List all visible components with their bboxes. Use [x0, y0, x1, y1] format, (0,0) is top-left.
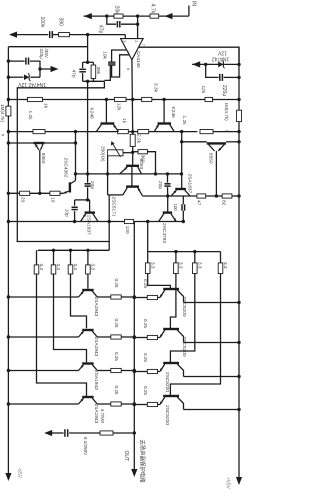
node rail row 2: [133, 335, 136, 338]
junction 47p right: [136, 23, 139, 26]
wire vas vertical x75: [75, 132, 77, 181]
resistor 1.2k: [33, 130, 45, 134]
wire trimmer wiper to fb loop: [104, 66, 110, 81]
svg-text:0.25: 0.25: [114, 386, 119, 395]
svg-text:8050: 8050: [40, 153, 46, 164]
resistor 1k vas: [118, 130, 129, 134]
arrow signal direction into 4.7k: [165, 13, 173, 19]
node 220u left: [7, 59, 10, 62]
capacitor 20p left branch: [87, 174, 89, 183]
node rf1: [174, 250, 177, 253]
resistor 1.2k right: [200, 130, 213, 134]
resistor 10: [50, 191, 60, 195]
wire q10 base vertical: [89, 200, 91, 213]
svg-text:3.3: 3.3: [197, 262, 202, 269]
wire op-amp pin7 supply to right: [139, 47, 239, 64]
svg-text:0.25: 0.25: [114, 279, 119, 288]
node rail y221 left: [7, 220, 10, 223]
resistor 3.3 right 1: [147, 252, 149, 263]
resistor 0.25 left 3: [111, 368, 121, 372]
svg-text:2SA1837: 2SA1837: [85, 215, 91, 235]
svg-text:20p: 20p: [157, 181, 163, 189]
capacitor 47p plates: [116, 21, 118, 28]
node junction pin2 top: [136, 14, 139, 17]
wire QR2 emitter to 0.25: [158, 337, 160, 339]
op-amp U1 CA3140 triangle: [121, 39, 144, 60]
wire q1 base left: [8, 142, 33, 144]
svg-text:0.25: 0.25: [143, 319, 148, 328]
transistor QL4 2SA1943: [82, 396, 93, 398]
wire fb return loop to x16 rail: [17, 81, 104, 241]
svg-text:3.3: 3.3: [91, 264, 96, 271]
IN stub wire: [188, 6, 190, 17]
node left rail y131: [7, 130, 10, 133]
wire 0.25R to rail 3: [134, 371, 147, 373]
transistor Q6 8550: [207, 142, 226, 144]
node 8550 lead join: [215, 194, 218, 197]
resistor 3.3k: [142, 97, 152, 101]
svg-text:0.25: 0.25: [143, 353, 148, 362]
wire 390 to pin3 corner: [69, 34, 125, 36]
wire q1 down lead: [39, 150, 41, 194]
svg-text:4.7/5W: 4.7/5W: [100, 409, 105, 424]
node q1 left rail: [7, 141, 10, 144]
node cap20p right join: [166, 172, 169, 175]
svg-text:K246: K246: [170, 107, 176, 119]
wire pin3 vertical: [124, 35, 126, 39]
svg-text:3.3: 3.3: [73, 264, 78, 271]
wire top frame horizontal: [8, 46, 87, 48]
wire zener D1 branch: [8, 76, 23, 78]
node 10p bottom: [73, 220, 76, 223]
svg-text:0.1/250V: 0.1/250V: [83, 437, 88, 456]
wire 4.7 to rail: [113, 432, 134, 434]
svg-text:47p: 47p: [98, 25, 104, 34]
resistor 0.25 left 2: [111, 335, 121, 339]
wire 82 to bus: [232, 195, 239, 197]
node bus row 1: [237, 301, 240, 304]
wire 0.25 to rail 3: [121, 370, 134, 372]
wire 47 to 82: [206, 195, 223, 197]
svg-text:CA3140: CA3140: [136, 51, 141, 68]
resistor 3.3 left 1: [36, 250, 38, 265]
svg-text:2SC4382: 2SC4382: [62, 158, 68, 178]
wire offset pin1 stub and U loop: [112, 50, 130, 77]
node q1 right: [74, 141, 77, 144]
wire left rail -65V vertical: [7, 47, 9, 474]
wire left bank feed loop: [17, 241, 110, 243]
wire fb bottom rail: [83, 80, 105, 82]
wire feedback node vertical long: [87, 81, 89, 174]
svg-text:+65V: +65V: [225, 477, 231, 489]
wire 20k to 4.7k node: [123, 15, 150, 17]
arrow -65V: [5, 473, 11, 481]
node q1 lead join: [38, 192, 41, 195]
resistor 3.3 left 2: [53, 250, 55, 265]
svg-text:2SA1943: 2SA1943: [93, 297, 99, 317]
capacitor 220u/35V plates left: [25, 58, 27, 65]
node output cross: [131, 98, 134, 101]
q1 slants: [35, 144, 39, 150]
wire OUT: [133, 433, 135, 470]
node bias top: [131, 151, 134, 154]
transistor Q4 8050 bias: [126, 165, 139, 167]
wire left feed drop: [108, 222, 110, 251]
svg-text:4.7k: 4.7k: [150, 4, 156, 14]
wire base line L2 with jog: [54, 274, 87, 362]
wire driver base left y200: [75, 199, 90, 201]
wire limiter base vertical: [181, 142, 183, 188]
wire output emitter rail y221: [8, 221, 183, 223]
wire 0.25R to rail 1: [134, 297, 147, 299]
svg-text:3.3: 3.3: [223, 262, 228, 269]
wire K246R drain down to base line: [181, 132, 183, 142]
potentiometer 250(1k): [108, 150, 123, 156]
resistor 3.3 right 3: [194, 252, 196, 263]
svg-text:-65V: -65V: [16, 468, 22, 479]
node rail y193: [7, 192, 10, 195]
wire rail line y131: [8, 131, 33, 133]
transistor Q5 2SC5171: [126, 185, 139, 187]
wire noninverting input line y=34.6: [14, 34, 48, 36]
wire QL3 collector to left rail: [8, 370, 78, 372]
node feedback tap on pin3 wire: [86, 33, 89, 36]
wire right rail +65V vertical: [238, 47, 240, 478]
capacitor 20p right branch: [167, 174, 169, 183]
wire QL4 collector to left rail: [8, 403, 78, 405]
svg-text:47p: 47p: [71, 70, 77, 78]
wire 360 branch: [133, 151, 138, 153]
wire 0.25 to rail 1: [121, 296, 134, 298]
wire fb top rail: [83, 61, 94, 63]
transistor Q8 2SC4793 driver: [163, 211, 172, 213]
node left rail row 1: [7, 295, 10, 298]
svg-text:12V: 12V: [217, 50, 227, 56]
node rail row R 2: [133, 336, 136, 339]
svg-text:82: 82: [220, 200, 226, 206]
svg-text:/35V: /35V: [44, 49, 49, 59]
capacitor 10p branch: [74, 200, 76, 206]
wire output rail vertical: [133, 222, 135, 434]
svg-text:2SA1943: 2SA1943: [93, 404, 99, 424]
wire to right resistor: [149, 131, 198, 133]
wire q5 left stub down: [108, 195, 110, 222]
svg-text:IN: IN: [191, 1, 197, 6]
svg-text:100: 100: [173, 204, 178, 212]
node bus row 2: [237, 341, 240, 344]
svg-text:3.3k: 3.3k: [152, 83, 158, 93]
wire base line R2 with jog: [170, 274, 176, 329]
svg-text:220μ: 220μ: [39, 49, 44, 60]
wire zobel: [50, 432, 64, 434]
arrow +12V off-page right: [51, 66, 59, 72]
capacitor 220u branch right: [206, 64, 219, 77]
svg-text:0.25: 0.25: [114, 352, 119, 361]
capacitor 0.1/250V plates: [64, 429, 66, 437]
node K246R drain join: [180, 130, 183, 133]
node left rail row 3: [7, 369, 10, 372]
node y131 bus: [237, 130, 240, 133]
svg-text:8050: 8050: [138, 159, 144, 170]
wire base line R1 with jog: [148, 274, 171, 289]
capacitor 100p right: [182, 196, 184, 204]
node rail row 4: [133, 402, 136, 405]
node q5 stub join: [108, 220, 111, 223]
arrow +12V off-page left: [192, 61, 200, 67]
svg-text:100k: 100k: [39, 17, 45, 28]
wire base line L1: [87, 274, 89, 289]
svg-text:2SC5200: 2SC5200: [164, 405, 170, 425]
resistor 82: [222, 194, 232, 198]
node vas feed: [74, 130, 77, 133]
node lf2: [69, 249, 72, 252]
wire QR4 collector to bus: [184, 409, 240, 411]
resistor 0.25 right 3: [147, 369, 157, 373]
wire QR1 collector to bus: [184, 302, 240, 304]
node vas mid: [74, 172, 77, 175]
node arrow branch: [38, 67, 41, 70]
arrow off-page left main: [9, 32, 17, 38]
svg-text:2SA1943: 2SA1943: [93, 370, 99, 390]
node bus row 3: [237, 375, 240, 378]
wire QL1 collector to left rail: [8, 296, 78, 298]
wire QR1 emitter to 0.25: [158, 297, 160, 299]
node rail row R 4: [133, 403, 136, 406]
svg-text:OUT: OUT: [123, 451, 129, 462]
svg-text:×: ×: [0, 134, 5, 137]
node lf3: [86, 249, 89, 252]
svg-text:去扬声器保护电路: 去扬声器保护电路: [139, 440, 147, 484]
node limiter top: [180, 140, 183, 143]
wire QR2 collector to bus: [184, 342, 240, 344]
svg-text:2SC5200: 2SC5200: [164, 372, 170, 392]
node right bank feed: [146, 220, 149, 223]
svg-text:1N4742: 1N4742: [212, 55, 230, 61]
resistor 3.3 left 4: [87, 250, 89, 265]
svg-text:390: 390: [57, 18, 63, 27]
resistor 0.25 left 4: [111, 402, 121, 406]
node fb top: [86, 61, 89, 64]
node rail row R 3: [133, 370, 136, 373]
wire 1k to K246 gate node: [43, 99, 115, 101]
node left rail row 2: [7, 335, 10, 338]
resistor 1k feed: [28, 97, 43, 101]
resistor 20: [20, 191, 30, 195]
node op-amp output join: [131, 130, 134, 133]
svg-text:20k: 20k: [114, 6, 120, 15]
svg-text:2SA1837: 2SA1837: [187, 174, 193, 194]
wire right bank feed drop: [147, 222, 149, 252]
svg-text:2SC5171: 2SC5171: [110, 197, 116, 217]
resistor 47: [197, 194, 206, 198]
node 20k left: [105, 14, 108, 17]
wire q5 left foot stub: [108, 194, 123, 196]
wire QL4 emitter: [97, 403, 111, 405]
svg-text:20: 20: [20, 197, 26, 203]
node cap 20p r bottom: [166, 194, 169, 197]
resistor 2.2k h: [138, 130, 149, 134]
resistor 0.25 right 1: [147, 295, 157, 299]
wire 220u left branch: [8, 60, 24, 62]
wire pin2 vertical: [137, 16, 139, 38]
node 8550 bus: [237, 140, 240, 143]
svg-text:1M(4.7k): 1M(4.7k): [224, 103, 229, 122]
transistor Q9 2SC4382 vas: [69, 182, 71, 192]
wire base line L3 with jog: [71, 274, 87, 328]
wire mid bias rail y174: [76, 173, 182, 175]
node 220u bus: [237, 76, 240, 79]
zener D2 1N4742: [218, 62, 223, 68]
wire QL1 emitter: [97, 296, 111, 298]
svg-text:1.2k: 1.2k: [27, 111, 33, 121]
svg-text:1N4742 12V: 1N4742 12V: [17, 81, 45, 87]
wire 12V feed line: [8, 99, 27, 101]
wire 0.25R to rail 4: [134, 404, 147, 406]
node lf1: [52, 249, 55, 252]
wire 1.2k to K246: [45, 131, 118, 133]
arrow off-page left on upper line: [84, 13, 92, 19]
wire 220u left to corner: [30, 61, 40, 77]
svg-text:2SC4793: 2SC4793: [161, 223, 167, 243]
capacitor 47p branch wire: [107, 16, 116, 24]
arrow OUT: [131, 469, 137, 477]
transistor QR1 2SC5200: [163, 288, 179, 290]
svg-text:2SC5200: 2SC5200: [181, 337, 187, 357]
wire base line R3 with jog: [170, 274, 194, 363]
wire pot left lead down: [107, 156, 109, 195]
svg-text:250(1k): 250(1k): [101, 146, 106, 162]
wire 8550 base line: [182, 141, 207, 143]
zener D1 1N4742 12V: [24, 74, 29, 80]
node 100p bottom: [182, 220, 185, 223]
svg-text:3.3: 3.3: [56, 264, 61, 271]
resistor 4.7/5W: [100, 431, 113, 435]
svg-text:K246: K246: [89, 108, 95, 120]
node 360 join: [154, 172, 157, 175]
resistor 0.25 right 2: [147, 335, 157, 339]
transistor Q3 K246 jfet: [101, 122, 115, 124]
svg-text:10k: 10k: [101, 51, 107, 59]
node pot left on mid wire: [106, 172, 109, 175]
svg-text:2SA1943: 2SA1943: [93, 337, 99, 357]
resistor 1M(4.7k) on left rail: [6, 106, 11, 116]
wire arrow +12V stub: [40, 68, 53, 70]
svg-text:220μ: 220μ: [221, 85, 227, 96]
capacitor 220u plates: [219, 74, 221, 81]
resistor 0.25 right 4: [147, 402, 157, 406]
node fb drop join: [86, 172, 89, 175]
svg-text:10p: 10p: [63, 209, 69, 217]
transistor QL2 2SA1943: [82, 329, 93, 331]
svg-text:1.2k: 1.2k: [181, 116, 187, 126]
svg-text:3.3: 3.3: [39, 264, 44, 271]
node rail row 1: [133, 295, 136, 298]
wire mid: [126, 99, 142, 101]
svg-text:1M(4.7k): 1M(4.7k): [0, 104, 5, 123]
node zener cathode bus: [237, 63, 240, 66]
node y196 bus: [237, 194, 240, 197]
resistor 12k: [205, 97, 213, 101]
wire 220u to bus: [224, 76, 239, 78]
node K246R gate tap: [162, 98, 165, 101]
resistor 3.3 right 4: [220, 252, 222, 263]
resistor 2.2k vertical: [130, 134, 135, 146]
resistor 39k: [91, 65, 96, 79]
wire q8 base vertical: [167, 196, 169, 213]
transistor K246 right (mirror): [158, 122, 172, 124]
svg-text:2SC5200: 2SC5200: [181, 297, 187, 317]
resistor 4.7k: [150, 14, 159, 18]
svg-text:12k: 12k: [200, 86, 206, 94]
resistor 10k mid: [115, 97, 127, 101]
node bus row 4: [237, 408, 240, 411]
wire input upper line (feedback tap) with off-page arrow: [84, 15, 115, 17]
svg-text:100: 100: [124, 226, 130, 234]
wire q1 bar right extension: [44, 142, 75, 144]
8550 slants: [209, 144, 215, 151]
svg-text:10: 10: [50, 197, 56, 203]
node fb bottom: [86, 80, 89, 83]
capacitor input coupling plates: [49, 31, 51, 38]
wire 0.25R to rail 2: [134, 337, 147, 339]
wire op-amp output vertical: [131, 60, 134, 132]
wire 4.7k to IN corner: [159, 15, 189, 17]
transistor QL1 2SA1943: [82, 289, 93, 291]
wire 360 to corner down: [148, 152, 156, 174]
wire QL2 emitter: [97, 336, 111, 338]
svg-text:0.25: 0.25: [143, 279, 148, 288]
resistor 360: [138, 150, 148, 154]
node left rail 12V line: [7, 98, 10, 101]
transistor QR2 2SC5200: [163, 328, 179, 330]
node 12k bus: [237, 98, 240, 101]
svg-text:1k: 1k: [43, 103, 49, 109]
svg-text:12k: 12k: [116, 103, 122, 111]
wire 0.25 to rail 4: [121, 403, 134, 405]
wire base line R4 with jog: [170, 274, 220, 396]
node rail row 3: [133, 369, 136, 372]
svg-text:×: ×: [223, 130, 229, 133]
svg-text:20p: 20p: [89, 181, 95, 189]
wire pot right to bias node: [123, 152, 133, 154]
resistor 3.3 left 3: [70, 250, 72, 265]
wire base line L1 with jog: [37, 274, 87, 396]
wire 47p to pin2 drop: [121, 23, 138, 25]
svg-text:0.25: 0.25: [143, 386, 148, 395]
transistor QR4 2SC5200: [163, 395, 179, 397]
wire left feed bottom: [38, 249, 110, 251]
transistor Q1 8050: [34, 142, 45, 144]
svg-text:0.25: 0.25: [114, 319, 119, 328]
wire QL2 collector to left rail: [8, 336, 78, 338]
wire 0.25 to rail 2: [121, 336, 134, 338]
resistor 3.3 right 2: [175, 252, 177, 263]
arrow +65V: [236, 477, 242, 485]
wire zener D1 to corner: [31, 76, 41, 78]
resistor 20k: [114, 14, 123, 18]
wire y131 to bus: [213, 131, 239, 133]
wire 20-10 line y193: [8, 192, 63, 194]
wire cap to 4.7 box: [69, 432, 100, 434]
svg-text:3.3: 3.3: [150, 262, 155, 269]
wire QL3 emitter: [97, 370, 111, 372]
resistor 1M(4.7k) right on bus: [237, 110, 242, 121]
wire right feed rail: [148, 251, 221, 253]
transistor QR3 2SC5200: [163, 362, 179, 364]
arrow zobel ground left: [44, 430, 52, 436]
node zener anode: [204, 63, 207, 66]
wire QR3 collector to bus: [184, 376, 240, 378]
